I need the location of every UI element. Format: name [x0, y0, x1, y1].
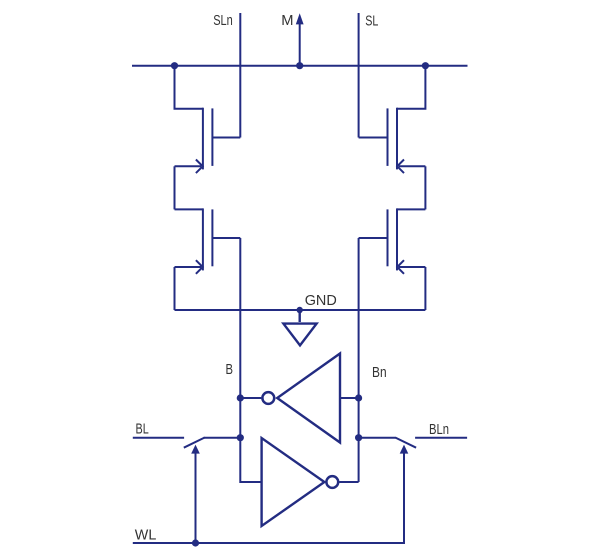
- wire top rail: [132, 65, 468, 67]
- transistor Q2 bottom-left: [175, 208, 241, 310]
- transistor Q4 bottom-right: [359, 208, 426, 310]
- svg-text:SL: SL: [365, 11, 378, 28]
- wire M output arrow: [296, 13, 304, 65]
- node junction dot left rail: [171, 62, 178, 69]
- wire BL gate arrow from WL: [191, 445, 200, 543]
- wire U1 input: [240, 397, 261, 399]
- wire BL lead: [133, 437, 184, 439]
- wire BLn lead: [415, 437, 467, 439]
- wire BL to node B: [204, 437, 241, 439]
- svg-text:WL: WL: [135, 527, 156, 543]
- switch BL pass gate blade: [184, 438, 205, 448]
- transistor Q1 top-left: [175, 66, 241, 210]
- node Bn dot at U1 output: [355, 394, 362, 401]
- node B dot at U1 input: [237, 394, 244, 401]
- svg-text:Bn: Bn: [372, 364, 387, 381]
- node junction dot right rail: [422, 62, 429, 69]
- wire SL vertical: [358, 13, 360, 138]
- node junction dot M rail: [296, 62, 303, 69]
- svg-text:GND: GND: [305, 293, 337, 309]
- switch BLn pass gate blade: [395, 438, 416, 448]
- wire node B vertical: [240, 238, 261, 482]
- op-amp inverter U1 (points left): [262, 354, 340, 443]
- wire U2 output: [339, 481, 358, 483]
- node GND dot: [297, 307, 303, 313]
- svg-text:BL: BL: [136, 420, 149, 437]
- wire WL horizontal and right gate arrow: [133, 445, 409, 543]
- wire GND rail: [175, 309, 426, 311]
- node dot WL left junction: [192, 539, 199, 546]
- svg-text:SLn: SLn: [213, 11, 233, 28]
- wire U1 output: [340, 397, 359, 399]
- wire BLn to node Bn: [359, 437, 396, 439]
- op-amp inverter U2 (points right): [262, 438, 339, 526]
- wire SLn vertical: [239, 13, 241, 138]
- node dot B pass junction: [237, 434, 244, 441]
- svg-text:BLn: BLn: [429, 420, 449, 437]
- ground symbol: [283, 310, 316, 345]
- transistor Q3 top-right: [359, 66, 426, 210]
- node dot Bn pass junction: [355, 434, 362, 441]
- svg-text:M: M: [281, 13, 293, 29]
- svg-text:B: B: [226, 361, 234, 378]
- wire node Bn vertical: [358, 238, 360, 482]
